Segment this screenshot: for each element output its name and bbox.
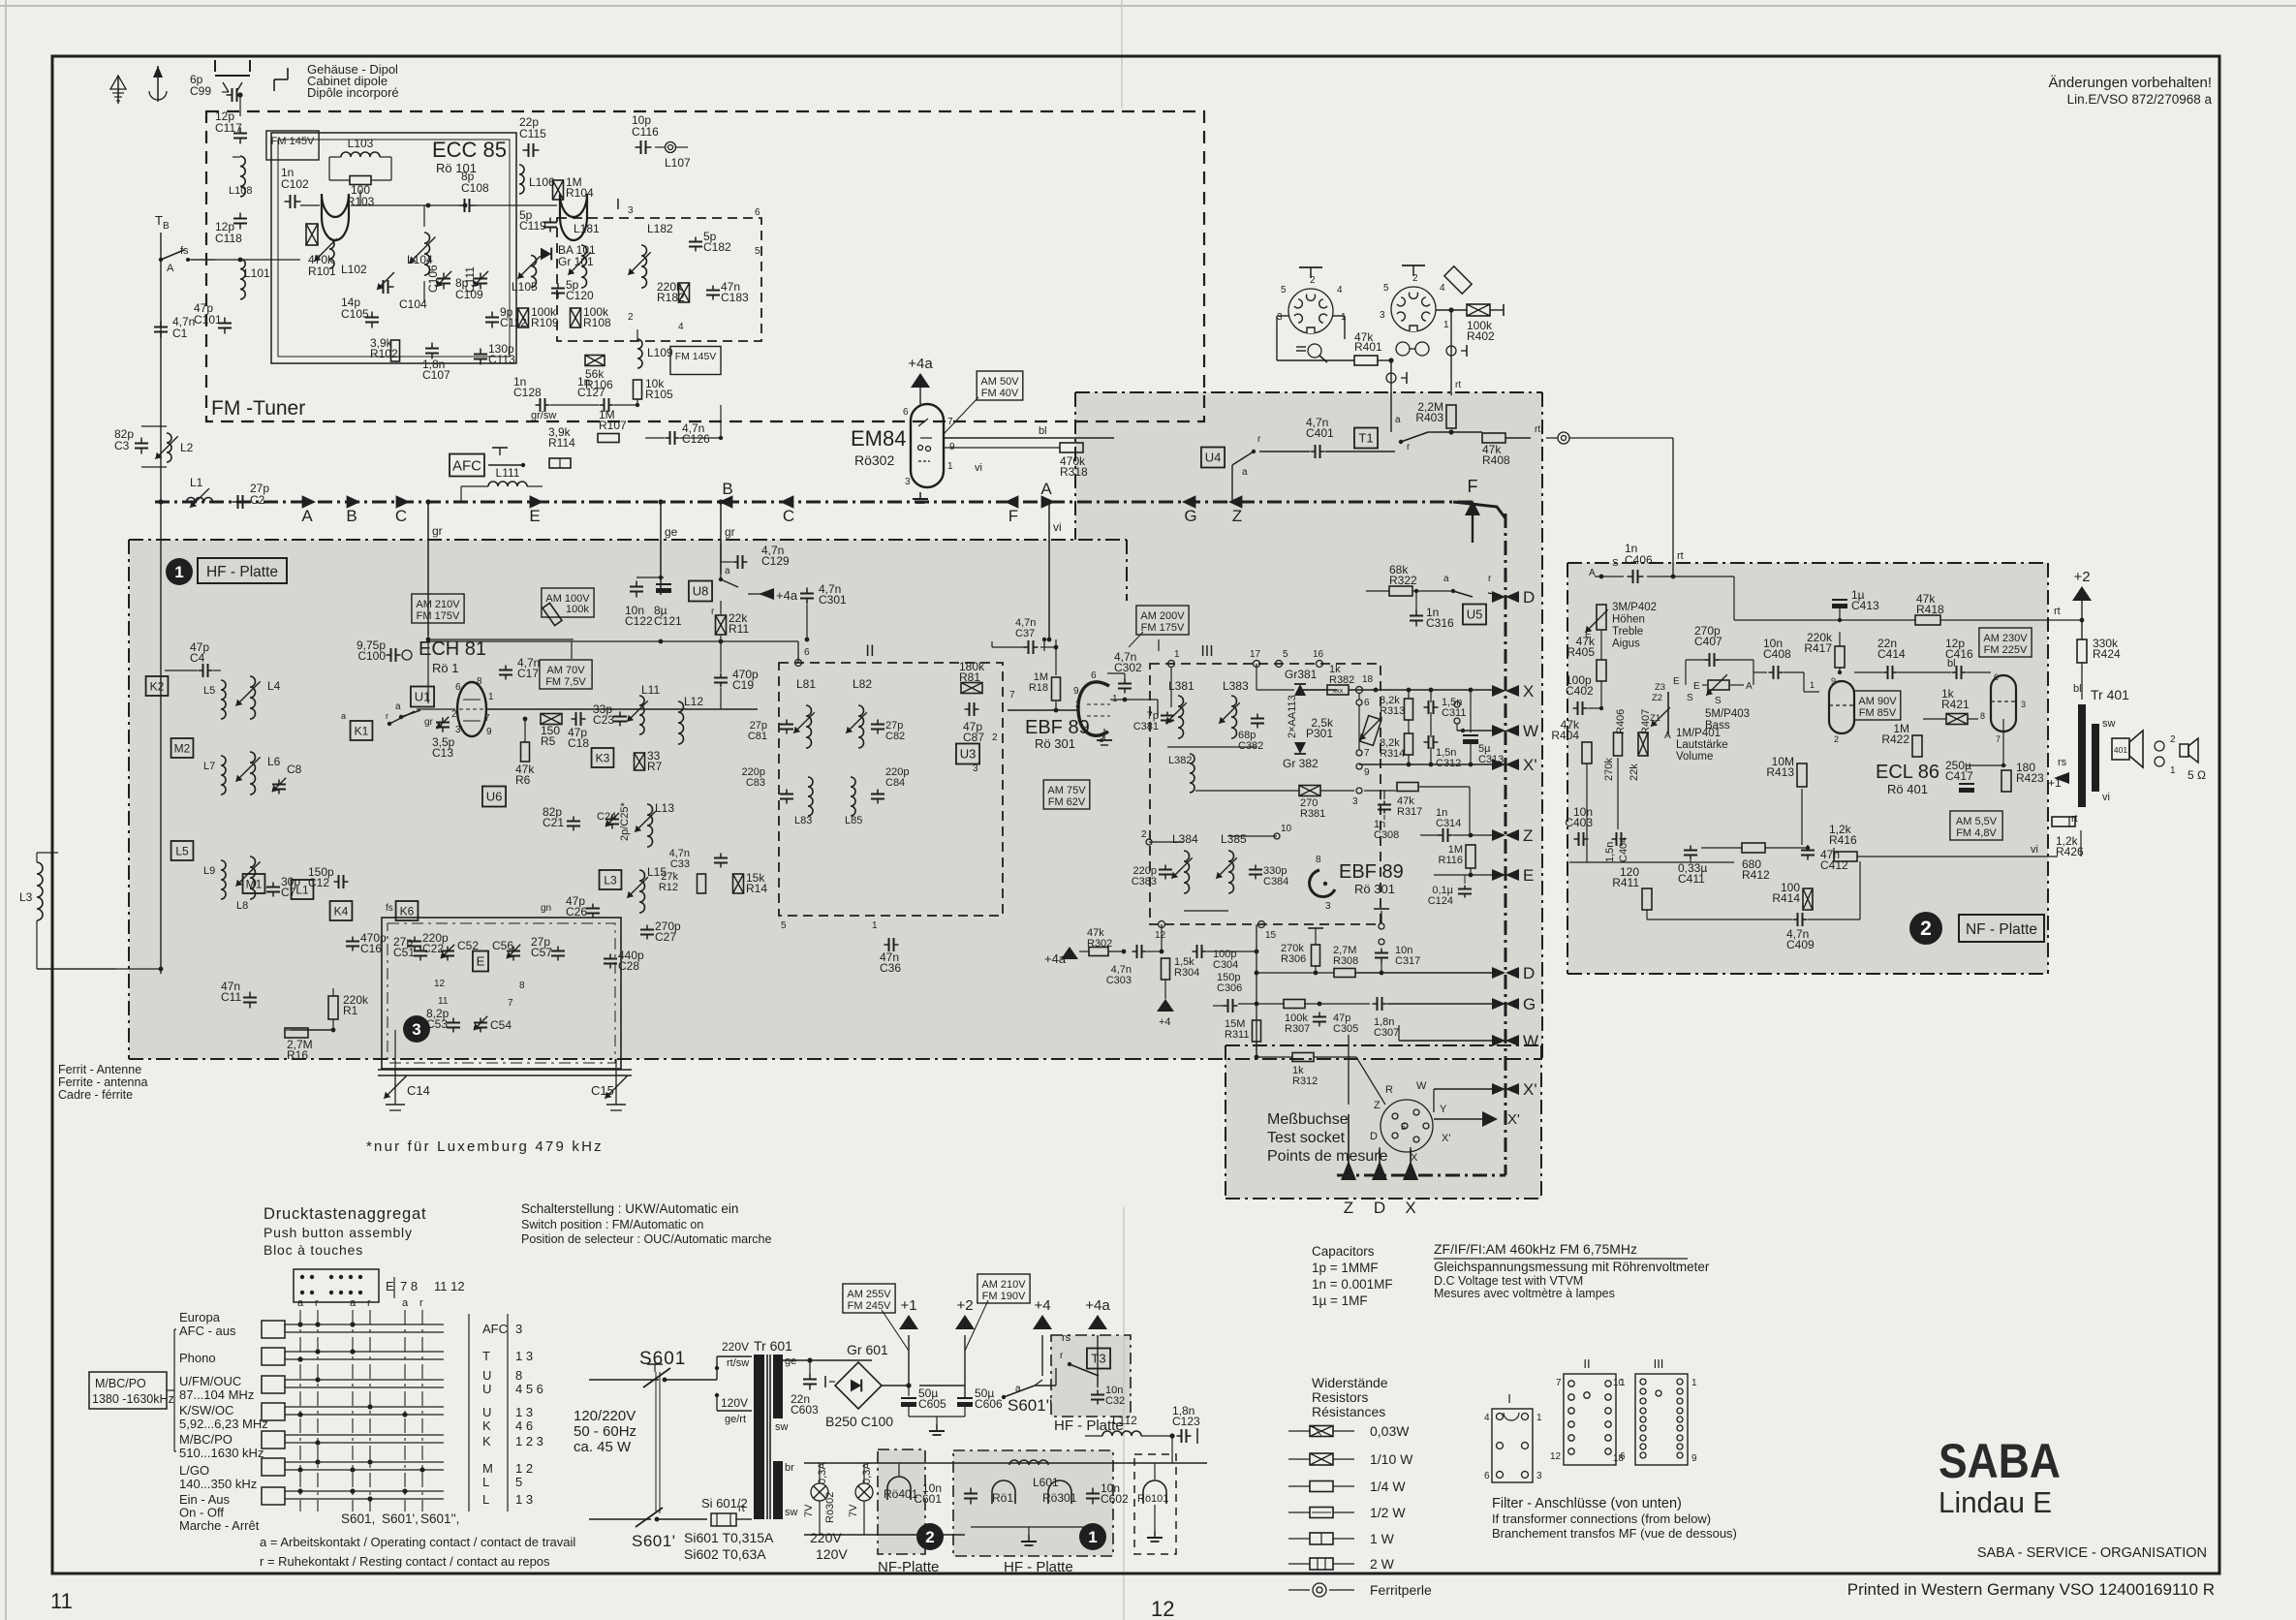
capacitor C7 [272,883,274,888]
svg-text:Filter - Anschlüsse (von unt: Filter - Anschlüsse (von unten) [1492,1496,1682,1511]
svg-text:FM 175V: FM 175V [417,610,460,622]
svg-text:L/GO: L/GO [179,1463,209,1478]
svg-text:2 W: 2 W [1370,1556,1395,1572]
wire C311 col [1430,690,1432,707]
svg-text:D: D [1374,1199,1385,1217]
wire X' row [1359,763,1500,765]
svg-text:III: III [1654,1356,1664,1371]
svg-text:11: 11 [50,1589,73,1613]
C14 trimmer [384,1075,406,1098]
svg-text:K4: K4 [334,904,349,918]
svg-text:Z: Z [1232,507,1242,525]
svg-text:C383: C383 [1132,876,1157,888]
svg-text:AFC - aus: AFC - aus [179,1324,236,1338]
voltage AM255 FM245 [843,1284,895,1313]
svg-text:C605: C605 [918,1397,946,1411]
svg-text:C33: C33 [670,858,690,870]
lamp2 [855,1483,873,1501]
svg-text:R12: R12 [659,882,678,893]
svg-text:1 2 3: 1 2 3 [515,1434,543,1449]
svg-text:C312: C312 [1436,758,1461,769]
svg-text:120V: 120V [721,1396,748,1410]
svg-text:FM 85V: FM 85V [1859,707,1897,719]
lamp Roe302 [811,1483,828,1501]
resistor R402 [1467,304,1490,316]
svg-text:Rö302: Rö302 [824,1492,836,1523]
coil L182 [641,245,647,288]
capacitor C316 [1415,610,1417,616]
switch C317 [1379,923,1384,929]
svg-text:A: A [1589,568,1596,578]
svg-text:M2: M2 [174,741,191,755]
capacitor C87 [965,708,970,710]
coil L11 [639,696,644,734]
heater Roe301 [1048,1480,1071,1504]
coil L109 [637,339,642,368]
svg-text:S601: S601 [639,1349,686,1369]
EBF89 first tube [1078,682,1109,735]
supply rail +1 [882,1385,909,1386]
svg-text:AM 5,5V: AM 5,5V [1956,816,1998,827]
svg-text:FM 7,5V: FM 7,5V [545,676,586,688]
svg-text:R406: R406 [1615,709,1627,734]
svg-text:R317: R317 [1397,806,1422,818]
svg-text:L601: L601 [1033,1476,1059,1489]
svg-text:Capacitors: Capacitors [1312,1244,1375,1259]
capacitor C104 trimmer [378,286,384,288]
svg-text:D: D [1523,588,1535,607]
gray panel center IF section [1075,392,1542,1059]
svg-text:7: 7 [484,713,490,724]
svg-text:L381: L381 [1168,679,1195,693]
bus tap G2 [1492,998,1505,1010]
svg-text:gr: gr [432,524,443,538]
svg-text:Cadre - férrite: Cadre - férrite [58,1088,133,1102]
svg-text:4: 4 [1484,1413,1490,1423]
svg-text:A: A [1040,480,1052,498]
svg-text:8: 8 [515,1368,522,1383]
svg-text:T1: T1 [1358,431,1373,446]
bus corner to vertical [1453,502,1505,518]
NF wires misc [1586,763,1588,862]
svg-text:C115: C115 [519,127,546,140]
svg-text:C126: C126 [682,432,710,446]
capacitor C13 [442,718,444,723]
svg-text:L2: L2 [180,441,194,454]
svg-text:C: C [783,507,794,525]
svg-text:L383: L383 [1223,679,1249,693]
gray panel NF-Platte [1567,563,2048,974]
svg-text:Z: Z [1344,1199,1353,1217]
wire D tap row [1366,590,1389,592]
svg-text:4 6: 4 6 [515,1418,533,1433]
svg-text:S: S [1612,558,1619,569]
svg-text:C129: C129 [761,554,790,568]
S601' switch [589,1518,651,1520]
svg-text:L382: L382 [1168,755,1192,766]
svg-text:X: X [1411,1152,1418,1164]
svg-text:7: 7 [1996,734,2001,744]
resistor R404 [1582,742,1592,763]
svg-text:AM 210V: AM 210V [416,599,460,610]
AFC box [450,454,484,477]
svg-text:S601'',: S601'', [420,1511,459,1526]
coil L8 [250,857,256,899]
svg-text:9: 9 [1831,676,1836,686]
svg-text:C14: C14 [407,1083,430,1098]
capacitor C106 [443,273,445,279]
socket DIN 2 [1391,287,1436,331]
resistor R407 [1638,732,1648,756]
svg-text:a: a [402,1297,409,1309]
gray panel heater HF [953,1450,1113,1556]
bracket wires [167,1389,174,1391]
resistor R109 [518,308,529,327]
svg-text:gr/sw: gr/sw [531,410,556,421]
svg-text:R408: R408 [1482,453,1510,467]
switch U5 [1463,605,1486,625]
svg-text:4: 4 [1440,283,1445,294]
scan artifact top line [0,5,2296,7]
wire hf bottom row 1000 [161,968,291,970]
svg-text:EM84: EM84 [851,426,906,451]
resistor R106 [585,356,605,366]
svg-text:C12: C12 [308,876,329,889]
FM tuner heater box [1134,1454,1176,1554]
svg-text:Schalterstellung : UKW/Automat: Schalterstellung : UKW/Automatic ein [521,1201,738,1216]
ferrite bead L107 [666,142,676,153]
svg-text:R308: R308 [1333,955,1358,967]
svg-text:R114: R114 [548,436,575,450]
svg-text:9: 9 [1364,767,1370,778]
svg-text:R18: R18 [1029,682,1048,694]
svg-text:3: 3 [1325,901,1331,912]
svg-text:C51: C51 [393,946,415,959]
svg-text:R426: R426 [2056,845,2084,858]
svg-text:R405: R405 [1567,645,1595,659]
resistor R412 [1742,843,1765,853]
node X' arrow [1434,1118,1492,1120]
svg-text:87...104 MHz: 87...104 MHz [179,1387,254,1402]
svg-text:C53: C53 [426,1017,448,1031]
svg-text:L1: L1 [190,476,203,489]
vertical distribution bus [1505,514,1507,1175]
svg-text:+4: +4 [1159,1016,1171,1028]
svg-text:R1: R1 [343,1004,358,1017]
wire C406 row [1595,576,1624,577]
svg-text:Drucktastenaggregat: Drucktastenaggregat [264,1205,426,1223]
svg-text:R422: R422 [1881,732,1909,746]
svg-text:F: F [1008,507,1018,525]
pot P403 bass [1702,684,1707,686]
magnifier symbol [1308,344,1321,358]
wire row 869 [1149,841,1184,843]
svg-text:6: 6 [455,682,461,693]
svg-text:Europa: Europa [179,1310,221,1324]
svg-text:2: 2 [2170,734,2176,745]
svg-text:Treble: Treble [1612,626,1643,638]
svg-text:C21: C21 [543,816,564,829]
svg-text:Gr381: Gr381 [1285,668,1318,681]
svg-text:S: S [1687,693,1693,703]
boxed label FM145V [266,131,319,160]
capacitor C413 [1832,599,1847,601]
node A2 [1041,495,1055,509]
svg-text:L7: L7 [203,761,215,772]
svg-text:1: 1 [1341,312,1347,323]
supply rail +4 [1033,1315,1052,1329]
gray panel heater NF [878,1449,925,1554]
pin 6 II [795,660,802,667]
coil L104 [424,233,430,275]
capacitor C313 switch [1454,701,1460,707]
svg-text:bl: bl [1039,425,1047,437]
svg-text:R403: R403 [1415,411,1443,424]
diag flag [1444,266,1472,294]
svg-text:M: M [482,1461,493,1476]
svg-text:11 12: 11 12 [434,1279,465,1293]
svg-text:D: D [1523,964,1535,982]
supply +2 [2072,586,2092,601]
svg-text:L12: L12 [684,695,703,708]
tape symbol [1396,342,1410,356]
svg-text:C36: C36 [880,961,901,975]
coil L81 [806,705,812,748]
svg-text:gr: gr [725,525,735,539]
diode BA101 [541,248,551,261]
svg-text:a: a [1015,1384,1021,1394]
svg-text:R101: R101 [308,265,336,278]
voltage AM50 FM40 [977,371,1023,400]
svg-text:5: 5 [1401,1122,1406,1132]
gray panel HF-Platte [129,540,1127,1059]
capacitor C1 [160,322,162,327]
svg-text:Änderungen vorbehalten!: Änderungen vorbehalten! [2049,75,2212,91]
svg-text:1/2 W: 1/2 W [1370,1505,1406,1520]
capacitor C123 [1177,1435,1182,1437]
svg-text:Printed in Western Germany: Printed in Western Germany VSO 124001691… [1847,1580,2215,1599]
capacitor C122 [636,581,637,587]
svg-text:R108: R108 [583,316,611,329]
capacitor C183 [712,286,714,291]
svg-text:+1: +1 [900,1297,916,1314]
wire W row [1399,1040,1500,1042]
svg-text:C316: C316 [1426,616,1454,630]
svg-text:R423: R423 [2016,771,2044,785]
Messbuchse socket [1381,1100,1433,1152]
wire plate row [428,640,798,642]
svg-text:K1: K1 [355,724,369,737]
Messbuchse dash-dot border [1226,1044,1541,1046]
svg-text:C87: C87 [963,731,984,744]
matrix contact dots [297,1322,302,1326]
svg-text:12: 12 [434,979,446,989]
scan fold center [1121,0,1123,109]
svg-text:Ferrite - antenna: Ferrite - antenna [58,1075,147,1089]
svg-text:6: 6 [1364,698,1370,708]
capacitor C112 [491,312,493,318]
svg-text:L108: L108 [229,185,252,197]
wire ECH81 screen row [427,636,429,703]
badge 1 heater [1079,1523,1106,1550]
svg-text:L102: L102 [341,263,367,276]
wire hf R1 column [332,988,334,996]
svg-text:E: E [1673,676,1680,687]
svg-text:C105: C105 [341,307,369,321]
resistor 100k diag [543,603,562,625]
cabinet dipole symbol [274,78,288,80]
svg-text:+2: +2 [956,1297,973,1314]
svg-text:L105: L105 [512,280,538,294]
svg-text:C27: C27 [655,930,676,944]
svg-text:AFC: AFC [482,1322,508,1336]
svg-text:Si602 T0,63A: Si602 T0,63A [684,1546,766,1562]
svg-text:Gr 601: Gr 601 [847,1342,888,1357]
svg-text:AM 200V: AM 200V [1140,610,1185,622]
svg-text:FM 145V: FM 145V [271,136,315,147]
svg-text:sw: sw [2102,718,2116,730]
svg-text:+2: +2 [2073,569,2090,585]
svg-text:10: 10 [1613,1378,1625,1388]
svg-text:C603: C603 [791,1403,819,1417]
heater HF box border [953,1450,1113,1556]
svg-text:7V: 7V [803,1504,815,1517]
switch U6 [482,787,506,807]
resistor R107 [598,434,619,443]
resistor R104 [553,180,564,200]
svg-text:R16: R16 [287,1048,308,1062]
wire III to bus X [1303,689,1337,691]
heater NF box border [878,1449,925,1554]
svg-text:Marche - Arrêt: Marche - Arrêt [179,1518,260,1533]
svg-text:6: 6 [1994,672,1999,682]
coil L13 [647,804,653,847]
badge 2 NF-Platte [1909,912,1942,945]
svg-text:a: a [1395,415,1401,425]
supply rail +4a [1088,1315,1107,1329]
svg-text:R318: R318 [1060,465,1088,479]
legend 2W [1288,1563,1310,1565]
Messbuchse wires [1348,1035,1350,1105]
coil L111 [488,482,527,486]
svg-text:C306: C306 [1217,982,1242,994]
coil L103 [341,152,380,157]
ground EM84 [919,492,921,499]
svg-text:E: E [386,1279,394,1293]
svg-text:G: G [1523,995,1536,1013]
coil L9 [221,860,226,899]
svg-text:C104: C104 [399,297,427,311]
svg-text:2: 2 [1412,273,1418,284]
capacitor C313 [1463,734,1478,736]
capacitor C602 [1092,1488,1094,1494]
svg-text:18: 18 [1362,674,1374,685]
svg-text:C57: C57 [531,946,552,959]
svg-text:FM 40V: FM 40V [981,388,1019,399]
svg-text:1 2: 1 2 [515,1461,533,1476]
node B [347,495,360,509]
wire C407 loop [1686,659,1707,661]
svg-text:R421: R421 [1941,698,1970,711]
svg-text:C313: C313 [1478,754,1504,765]
svg-text:R14: R14 [746,882,767,895]
svg-text:ge: ge [665,525,678,539]
svg-text:a: a [1242,467,1248,478]
svg-text:L4: L4 [267,679,281,693]
wire gr vertical [427,502,429,636]
wire plate to III [1110,699,1158,701]
wire E row [1434,874,1500,876]
svg-text:C317: C317 [1395,955,1420,967]
voltage callout AM100 [542,588,594,617]
svg-text:C106: C106 [426,265,440,293]
ECH81 tube [457,682,486,736]
svg-text:C411: C411 [1678,872,1705,886]
svg-text:C182: C182 [703,240,731,254]
T1 box [1354,428,1378,449]
svg-text:a = Arbeitskontakt / Operating: a = Arbeitskontakt / Operating contact /… [260,1535,575,1549]
svg-text:L: L [482,1475,489,1489]
svg-text:AM 70V: AM 70V [546,665,585,676]
svg-text:C303: C303 [1106,975,1132,986]
svg-text:11: 11 [438,996,449,1007]
capacitor C36 [884,944,889,946]
node G [1182,495,1195,509]
svg-text:a: a [350,1297,357,1309]
svg-text:A: A [167,263,174,274]
svg-text:Position de selecteur : OUC/A: Position de selecteur : OUC/Automatic ma… [521,1232,771,1246]
voltage AM210 FM190 [977,1274,1030,1303]
svg-text:NF-Platte: NF-Platte [878,1559,939,1575]
svg-text:C19: C19 [732,678,754,692]
antenna symbol arrow [157,66,159,102]
wire R421 [1923,718,1946,720]
capacitor C111 [480,273,481,279]
svg-text:X: X [1405,1199,1415,1217]
switch K1 [351,721,373,740]
svg-text:4 5 6: 4 5 6 [515,1382,543,1396]
svg-text:K2: K2 [150,679,165,693]
svg-text:C26: C26 [566,905,587,919]
svg-text:W: W [1523,722,1538,740]
svg-text:0,3A: 0,3A [817,1462,828,1484]
node E [530,495,543,509]
svg-text:Y: Y [1440,1104,1447,1115]
svg-text:C381: C381 [1133,721,1159,732]
svg-text:1µ = 1MF: 1µ = 1MF [1312,1293,1368,1308]
svg-text:C24: C24 [597,811,616,823]
svg-text:5: 5 [781,920,787,931]
svg-text:Z: Z [1374,1100,1381,1111]
oscillator shield box [271,133,516,363]
coil L15 [639,870,645,913]
switch U3 [956,744,979,764]
svg-text:9: 9 [486,727,492,737]
svg-text:rt: rt [1455,380,1461,390]
boxed label FM145V right [670,347,721,375]
svg-text:140...350 kHz: 140...350 kHz [179,1477,257,1491]
svg-text:Rö 301: Rö 301 [1354,882,1395,896]
resistor R103 [350,176,371,185]
svg-text:SABA: SABA [1939,1434,2061,1488]
svg-text:vi: vi [975,462,982,474]
coil L383 [1231,696,1237,738]
svg-text:C124: C124 [1428,895,1453,907]
svg-text:C17: C17 [517,667,539,680]
voltage callout AM210 FM175 [412,594,464,623]
svg-text:L112: L112 [1112,1414,1137,1427]
svg-text:M/BC/PO: M/BC/PO [95,1377,146,1390]
